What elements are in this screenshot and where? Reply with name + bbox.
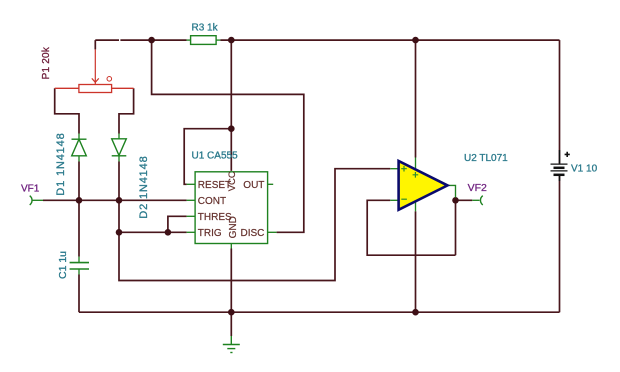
potentiometer P1 wiper arrowhead chevron: [92, 78, 99, 82]
node junction top rail at op-amp supply: [412, 37, 419, 44]
svg-text:VF1: VF1: [21, 183, 40, 194]
capacitor C1 bottom stub: [78, 269, 80, 275]
wire top rail segment 2: [120, 39, 186, 41]
wire D1 bottom to VF1 line: [78, 162, 80, 201]
svg-text:U2 TL071: U2 TL071: [464, 153, 508, 164]
wire RESET branch: [184, 129, 231, 185]
node junction VF1 line at D2: [116, 197, 123, 204]
node junction bottom rail at op-amp supply: [412, 309, 419, 316]
wire op-amp supply stub lower green: [415, 201, 417, 212]
wire output to VF2: [456, 199, 473, 201]
battery V1 lead bottom: [559, 176, 561, 181]
wire TRIG line: [119, 231, 187, 233]
ground symbol bar 3: [230, 352, 232, 354]
capacitor C1 top plate: [70, 262, 89, 264]
wire VF1 line to CONT: [43, 199, 187, 201]
wire DISC staircase: [152, 40, 304, 232]
terminal VF1 arc: [30, 196, 32, 205]
potentiometer P1 body: [79, 85, 112, 93]
svg-text:P1 20k: P1 20k: [41, 46, 52, 79]
op-amp U2 input minus stub: [390, 199, 398, 201]
terminal VF2 arc: [480, 196, 482, 205]
wire ground drop: [230, 312, 232, 336]
wire bottom rail: [79, 311, 560, 313]
wire op-amp output lower: [455, 198, 457, 256]
wire THRES branch: [168, 216, 187, 232]
IC U1 CA555 body: [195, 172, 268, 244]
ground symbol stem: [230, 336, 232, 344]
wire C1 top: [78, 200, 80, 256]
svg-text:VCC: VCC: [227, 171, 238, 191]
IC U1 pin stub OUT: [268, 183, 274, 185]
op-amp U2 output stub green: [448, 185, 456, 197]
wire top rail left segment: [95, 39, 119, 41]
node junction TRIG at THRES branch: [165, 229, 172, 236]
svg-text:OUT: OUT: [243, 180, 264, 191]
svg-text:V1 10: V1 10: [571, 163, 598, 174]
svg-text:TRIG: TRIG: [198, 228, 222, 239]
battery V1 plus sign: [565, 152, 570, 157]
capacitor C1 top stub: [78, 257, 80, 263]
IC U1 pin stub DISC: [268, 231, 277, 233]
op-amp U2 plus input mark: [401, 166, 407, 172]
diode D1 bottom stub: [78, 156, 80, 162]
wire pot right lead down: [119, 88, 134, 133]
IC U1 pin stub TRIG: [187, 231, 196, 233]
diode D1 cathode bar: [72, 138, 87, 140]
svg-text:U1 CA555: U1 CA555: [192, 151, 239, 162]
svg-text:CONT: CONT: [198, 196, 226, 207]
ground symbol bar 1: [223, 344, 240, 346]
ground symbol bar 2: [227, 348, 235, 350]
battery V1 plate short 2: [554, 174, 565, 177]
resistor R3 left stub: [187, 39, 191, 41]
node junction TRIG at D2 column: [116, 229, 123, 236]
wire D2 bottom to VF1 line: [118, 162, 120, 201]
diode D2 triangle: [112, 139, 127, 156]
battery V1 plate long top: [551, 163, 568, 165]
IC U1 pin stub THRES: [187, 215, 196, 217]
op-amp U2 supply plus mark: [413, 172, 419, 178]
op-amp U2 minus input mark: [401, 198, 407, 200]
resistor R3 right stub: [216, 39, 220, 41]
potentiometer P1 left lead: [55, 87, 79, 89]
diode D2 bottom stub: [118, 156, 120, 162]
diode D2 top stub: [118, 134, 120, 139]
IC U1 pin stub RESET: [187, 183, 196, 185]
wire C1 bottom to rail: [78, 275, 80, 313]
svg-text:D2 1N4148: D2 1N4148: [138, 155, 150, 218]
svg-text:C1 1u: C1 1u: [57, 251, 69, 279]
op-amp U2 input plus stub: [390, 168, 398, 170]
wire VCC column: [230, 40, 232, 171]
battery V1 plate long bottom: [551, 170, 568, 172]
wire top rail right segment: [220, 39, 559, 41]
svg-text:VF2: VF2: [468, 182, 487, 194]
resistor R3 body: [191, 36, 217, 45]
wire GND column: [230, 249, 232, 313]
battery V1 lead top: [559, 150, 561, 163]
battery V1 plate short 1: [554, 167, 565, 170]
IC U1 pin stub GND bottom: [230, 244, 232, 249]
diode D2 cathode bar: [112, 155, 127, 157]
diode D1 triangle: [72, 139, 87, 156]
wire op-amp supply column lower: [415, 211, 417, 312]
op-amp U2 triangle: [399, 161, 448, 210]
potentiometer P1 marker circle: [107, 77, 112, 82]
svg-text:GND: GND: [228, 216, 239, 238]
IC U1 pin stub CONT: [187, 199, 196, 201]
terminal VF2 stub: [472, 199, 479, 201]
node junction top rail at VCC column: [228, 37, 235, 44]
potentiometer P1 right lead: [112, 87, 134, 89]
wire pot wiper stub from rail: [94, 40, 96, 49]
wire feedback loop: [367, 200, 455, 255]
node junction bottom rail at ground: [228, 309, 235, 316]
node junction output VF2: [452, 197, 459, 204]
node junction RESET corner: [228, 125, 235, 132]
wire op-amp supply stub upper green: [415, 158, 417, 171]
diode D1 top stub: [78, 134, 80, 140]
wire op-amp supply column upper: [415, 40, 417, 157]
terminal VF1 stub: [32, 199, 43, 201]
capacitor C1 bottom plate: [70, 268, 89, 270]
svg-text:D1 1N4148: D1 1N4148: [55, 132, 67, 195]
svg-text:R3 1k: R3 1k: [192, 22, 219, 33]
node junction VF1 line at D1 C1: [76, 197, 83, 204]
node junction top rail at DISC staircase: [148, 37, 155, 44]
svg-text:DISC: DISC: [241, 228, 265, 239]
wire pot left lead down: [55, 88, 79, 133]
wire battery bottom column: [559, 176, 561, 312]
wire battery top column: [559, 40, 561, 163]
wire node A column to op-amp plus staircase: [119, 169, 390, 281]
potentiometer P1 wiper arrow line: [94, 49, 96, 84]
